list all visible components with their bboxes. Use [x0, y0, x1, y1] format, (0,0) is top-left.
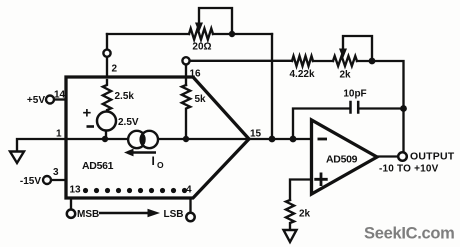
svg-text:AD509: AD509	[326, 154, 358, 166]
svg-text:LSB: LSB	[164, 209, 184, 220]
node LSB circle	[186, 213, 194, 221]
wire node16 horizontal to 4.22k	[190, 60, 292, 62]
resistor R4 4.22k body	[292, 56, 313, 66]
wire pin16 riser and 5k stem	[185, 65, 187, 86]
potentiometer R5 2k body	[333, 56, 357, 66]
svg-text:MSB: MSB	[77, 209, 99, 220]
wire 2k to output feedback corner	[357, 61, 404, 152]
svg-text:O: O	[157, 160, 164, 170]
voltage source V1 2.5V circle	[97, 112, 116, 131]
wire pin14 +5V	[55, 98, 67, 100]
internal rail pin1 to pin15	[66, 138, 249, 140]
potentiometer R1 20ohm body	[189, 29, 213, 40]
label minus input	[318, 138, 328, 141]
svg-text:OUTPUT: OUTPUT	[410, 151, 455, 163]
resistor R6 2k body	[286, 200, 294, 229]
svg-text:-10 TO +10V: -10 TO +10V	[379, 164, 439, 175]
svg-text:15: 15	[250, 129, 262, 140]
svg-text:SeekIC.com: SeekIC.com	[364, 225, 455, 243]
svg-text:+: +	[83, 105, 92, 122]
wire MSB pin stub	[70, 198, 72, 209]
node MSB circle	[67, 210, 75, 218]
svg-text:16: 16	[190, 69, 202, 80]
ground symbol G1 at pin1	[10, 152, 24, 164]
node OUTPUT circle	[398, 152, 407, 161]
current source overlap shading	[141, 134, 146, 145]
svg-text:14: 14	[54, 90, 66, 101]
pin dots row	[83, 188, 187, 193]
wire between 4.22k and 2k pot	[313, 60, 333, 62]
svg-text:1: 1	[56, 129, 62, 140]
svg-text:2: 2	[112, 64, 118, 75]
node 2 circle	[103, 50, 110, 57]
arrow Io	[132, 151, 156, 154]
svg-text:2.5V: 2.5V	[118, 117, 139, 128]
wire pin15 to op-amp minus input	[249, 138, 312, 140]
wire pin3 -15V	[52, 179, 67, 181]
svg-text:2k: 2k	[339, 70, 351, 81]
wire 2k pot wiper loop	[343, 36, 372, 59]
AD561 U1 body outline	[66, 77, 249, 198]
arrow MSB to LSB	[99, 212, 149, 215]
svg-text:AD561: AD561	[82, 160, 114, 172]
svg-text:20Ω: 20Ω	[192, 42, 211, 53]
node 16 circle	[182, 57, 189, 64]
wire LSB pin stub	[189, 198, 191, 213]
ground symbol G2 below 2k	[284, 230, 297, 242]
wire 10pF to output node	[359, 107, 403, 109]
junction dot feedback at rail	[269, 136, 276, 143]
resistor R2 2.5k body	[103, 80, 111, 112]
label plus input	[314, 173, 327, 187]
svg-text:I: I	[152, 154, 155, 168]
op-amp U2 AD509 body	[312, 120, 378, 194]
junction dot 2.5V source at rail	[102, 136, 108, 142]
junction dot 10pF branch at rail	[290, 136, 297, 143]
wire op-amp output to node	[377, 155, 398, 157]
arrowhead 2k pot wiper	[339, 49, 347, 59]
wire 20ohm wiper loop	[199, 8, 232, 32]
wire node2 riser	[106, 34, 108, 80]
wire op-amp plus input lead	[290, 180, 312, 201]
junction dot 2k pot loop	[369, 58, 376, 65]
svg-text:-15V: -15V	[20, 176, 41, 187]
node terminal -15V circle	[43, 176, 51, 184]
node terminal +5V circle	[46, 96, 54, 104]
junction dot 20ohm loop	[229, 31, 235, 37]
svg-text:5k: 5k	[195, 94, 207, 105]
junction dot 10pF at output line	[400, 105, 407, 112]
wire vertical from top rail to pin15 rail	[271, 34, 273, 139]
svg-text:+5V: +5V	[27, 95, 45, 106]
wire pin1 ground lead	[17, 139, 66, 151]
wire top rail left segment	[107, 33, 189, 35]
svg-text:2k: 2k	[299, 209, 311, 220]
svg-text:13: 13	[70, 185, 82, 196]
wire 10pF branch riser	[293, 109, 349, 140]
label minus of 2.5V source	[87, 125, 95, 128]
svg-text:2.5k: 2.5k	[115, 91, 135, 102]
arrowhead 20ohm wiper	[195, 23, 203, 33]
wire top rail right segment	[213, 33, 272, 35]
svg-text:4.22k: 4.22k	[289, 69, 314, 80]
capacitor C1 10pF plates	[351, 102, 359, 113]
wire 2.5V source stem to rail	[105, 131, 107, 140]
svg-text:10pF: 10pF	[343, 89, 366, 100]
resistor R3 5k body	[182, 85, 190, 139]
svg-text:3: 3	[53, 167, 59, 178]
current source I1 circles	[128, 131, 145, 148]
junction dot 5k at rail	[183, 136, 189, 142]
